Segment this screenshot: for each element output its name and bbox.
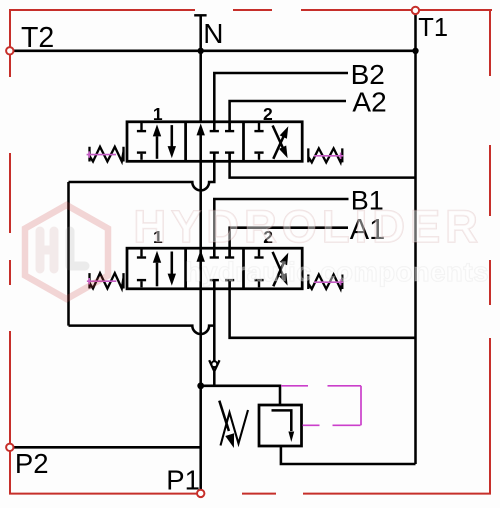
valve DV1 neutral box pass-through arrow (197, 123, 205, 135)
wire P junction to relief valve feed (201, 386, 280, 405)
valve DV1 position-2 crossed arrows (273, 134, 284, 158)
svg-text:1: 1 (153, 104, 163, 124)
svg-text:2: 2 (263, 104, 273, 124)
check valve CV1 (seat) (209, 360, 219, 371)
svg-text:T1: T1 (418, 14, 448, 42)
svg-text:hydraulic components: hydraulic components (185, 257, 489, 287)
frame: red dashed border right (489, 9, 491, 494)
port marker T1 (red circle) (412, 7, 419, 14)
wire bypass loop bottom to valve 2 feed (with crossover dip) (69, 326, 215, 334)
relief valve RV1 internal flow arrow (272, 410, 292, 431)
svg-text:B2: B2 (351, 59, 385, 90)
check valve CV1 (ball) (211, 361, 217, 367)
svg-text:P1: P1 (166, 465, 200, 496)
port marker P2 (red circle) (6, 444, 13, 451)
valve DV1 position-2 box blocked ports (254, 122, 263, 160)
valve DV1 position-1 box blocked ports (137, 122, 146, 160)
wire port A1 (from valve 2 top to label) (230, 228, 348, 258)
frame: red dashed border bottom (9, 493, 491, 495)
wire N riser (neutral/pump line down to valve 1) (199, 15, 202, 122)
valve DV1 body (3-position spool) (127, 122, 302, 162)
wire port A2 (from valve 1 top to label) (230, 101, 346, 131)
wire port B2 (from valve 1 top to label) (214, 73, 348, 131)
valve DV2 position-1 down arrow (171, 252, 174, 275)
wire relief valve outlet to T1 (281, 446, 416, 464)
spring valve1-right (308, 148, 342, 162)
wire valve 1 carryover to left bypass loop (with crossover dip) (69, 153, 215, 191)
port marker T2 (red circle) (6, 47, 13, 54)
spring valve2-right actuator line (magenta) (314, 279, 343, 285)
wire port B1 (from valve 2 top to label) (214, 199, 348, 258)
wire main pressure line valve2 to P junction and P1 (199, 261, 202, 492)
spring valve1-left actuator line (magenta) (87, 151, 116, 157)
valve DV1 position-1 up arrow (156, 136, 159, 159)
junction dot T1 x T2 (412, 48, 418, 54)
relief valve RV1 adjustable spring (221, 410, 249, 446)
spring valve1-left (90, 147, 124, 162)
wire valve 2 feed riser through check valve to P junction (213, 280, 216, 361)
valve DV2 neutral box blocked ports (210, 248, 235, 289)
junction dot N x T2 (198, 48, 204, 54)
valve DV1 neutral box blocked ports (210, 122, 235, 162)
svg-text:HYDROLIDER: HYDROLIDER (134, 201, 484, 252)
spring valve1-right actuator line (magenta) (314, 153, 343, 159)
valve DV1 position-1 down arrow (171, 125, 174, 147)
junction dot P node (197, 382, 204, 389)
relief valve RV1 pilot line (magenta dashed) (281, 386, 361, 426)
node N top cap (194, 14, 206, 16)
port marker P1 (red circle) (197, 490, 204, 497)
valve DV2 body (3-position spool) (127, 248, 302, 289)
wire main pressure line between valves (199, 135, 202, 261)
wire valve 1 tank return to T1 (230, 153, 416, 178)
svg-text:T2: T2 (21, 22, 54, 54)
wire bypass loop left side (67, 182, 70, 326)
spring valve2-left actuator line (magenta) (87, 278, 116, 284)
spring valve2-right (308, 275, 342, 290)
spring valve2-left (90, 273, 124, 288)
svg-text:P2: P2 (15, 448, 49, 479)
valve DV2 position-1 box blocked ports (137, 248, 146, 287)
frame: red dashed border left (9, 9, 11, 494)
watermark hexagon logo (25, 205, 108, 299)
valve DV2 neutral box pass-through arrow (197, 250, 205, 262)
valve DV2 position-1 up arrow (156, 263, 159, 287)
wire valve 2 tank return to T1 (230, 280, 416, 338)
svg-text:N: N (203, 18, 223, 49)
valve DV2 position-2 crossed arrows (273, 261, 284, 287)
wire tank line T2 to T1 (11, 50, 416, 53)
watermark HL monogram (40, 231, 85, 269)
relief valve RV1 body (259, 405, 302, 446)
relief valve RV1 adjustment arrow (219, 401, 229, 431)
svg-text:A2: A2 (352, 87, 386, 118)
valve DV2 position-2 box blocked ports (254, 248, 263, 287)
wire T1 riser (tank line down right side) (414, 9, 417, 465)
frame: red dashed border top (10, 9, 492, 11)
wire P2 line (11, 446, 201, 449)
